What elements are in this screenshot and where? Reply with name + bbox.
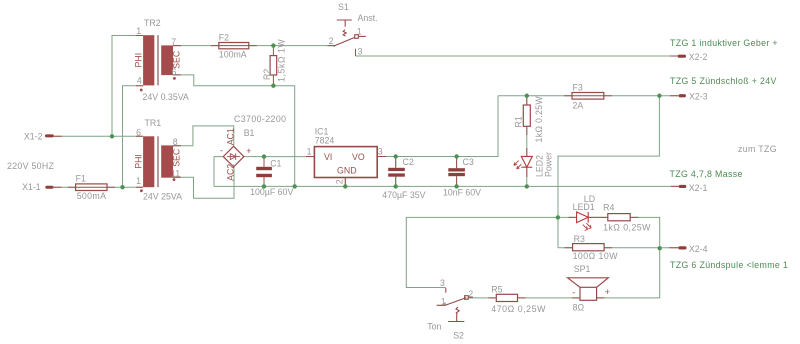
svg-text:1: 1	[136, 176, 141, 186]
svg-text:PHI: PHI	[133, 53, 143, 68]
svg-text:100Ω 10W: 100Ω 10W	[573, 251, 619, 261]
svg-text:6: 6	[136, 128, 141, 138]
svg-text:1: 1	[441, 297, 446, 307]
svg-text:R3: R3	[574, 234, 585, 244]
svg-text:1kΩ 0,25W: 1kΩ 0,25W	[603, 223, 651, 233]
svg-text:F3: F3	[573, 83, 583, 93]
svg-text:PHI: PHI	[133, 154, 143, 169]
svg-text:LED1: LED1	[573, 202, 595, 212]
svg-text:R5: R5	[491, 285, 502, 295]
svg-text:100mA: 100mA	[219, 49, 247, 59]
svg-text:B1: B1	[244, 128, 255, 138]
svg-text:2: 2	[329, 36, 334, 46]
svg-text:10nF 60V: 10nF 60V	[443, 188, 481, 198]
svg-text:SEC: SEC	[171, 50, 181, 69]
svg-text:1: 1	[136, 26, 141, 36]
svg-text:AC1: AC1	[225, 128, 235, 145]
svg-text:+: +	[605, 287, 610, 297]
svg-text:C2: C2	[403, 157, 414, 167]
svg-text:TZG 6 Zündspule <lemme 1: TZG 6 Zündspule <lemme 1	[670, 260, 788, 270]
svg-text:+: +	[246, 146, 251, 156]
svg-text:100µF 60V: 100µF 60V	[250, 187, 293, 197]
svg-text:SEC: SEC	[171, 148, 181, 167]
svg-text:SP1: SP1	[574, 264, 591, 274]
svg-text:3: 3	[358, 47, 363, 57]
svg-text:R1: R1	[513, 116, 523, 127]
svg-text:Power: Power	[543, 152, 553, 177]
svg-text:470Ω 0,25W: 470Ω 0,25W	[491, 304, 546, 314]
svg-text:C3: C3	[463, 157, 474, 167]
svg-text:X2-4: X2-4	[689, 244, 708, 254]
svg-text:2: 2	[335, 179, 345, 184]
svg-text:GND: GND	[337, 165, 357, 175]
svg-text:C3700-2200: C3700-2200	[234, 114, 286, 124]
svg-text:7824: 7824	[315, 135, 335, 145]
svg-text:3: 3	[378, 147, 383, 157]
svg-text:1: 1	[307, 147, 312, 157]
svg-text:Anst.: Anst.	[358, 13, 378, 23]
svg-text:Ton: Ton	[427, 321, 441, 331]
svg-text:TZG 1 induktiver Geber +: TZG 1 induktiver Geber +	[670, 38, 778, 48]
svg-text:R4: R4	[603, 202, 614, 212]
svg-text:11: 11	[171, 168, 180, 178]
svg-text:-: -	[572, 287, 575, 297]
svg-text:TR1: TR1	[145, 118, 162, 128]
svg-text:F2: F2	[219, 33, 229, 43]
svg-text:500mA: 500mA	[77, 191, 107, 201]
svg-text:zum TZG: zum TZG	[738, 144, 777, 154]
svg-text:S1: S1	[338, 2, 349, 12]
svg-text:24V 0.35VA: 24V 0.35VA	[143, 92, 189, 102]
svg-text:8: 8	[173, 137, 178, 147]
svg-text:2: 2	[468, 289, 473, 299]
svg-text:X2-1: X2-1	[689, 183, 708, 193]
svg-text:VO: VO	[352, 152, 365, 162]
svg-text:4: 4	[137, 76, 142, 86]
svg-text:AC2: AC2	[225, 164, 235, 181]
svg-text:TZG 4,7,8 Masse: TZG 4,7,8 Masse	[670, 169, 743, 179]
svg-text:24V 25VA: 24V 25VA	[143, 191, 182, 201]
svg-text:C1: C1	[270, 158, 281, 168]
svg-text:R2: R2	[262, 69, 272, 80]
svg-text:X2-3: X2-3	[689, 92, 708, 102]
svg-text:TR2: TR2	[144, 18, 161, 28]
svg-text:X1-2: X1-2	[24, 132, 43, 142]
svg-text:1kΩ 0.25W: 1kΩ 0.25W	[534, 96, 544, 143]
svg-text:3: 3	[440, 278, 445, 288]
svg-text:7: 7	[171, 37, 176, 47]
svg-text:220V 50HZ: 220V 50HZ	[7, 161, 55, 171]
svg-text:1,5kΩ 1W: 1,5kΩ 1W	[276, 39, 286, 82]
svg-text:X2-2: X2-2	[689, 52, 708, 62]
svg-text:F1: F1	[76, 173, 86, 183]
svg-text:8Ω: 8Ω	[573, 302, 585, 312]
svg-text:X1-1: X1-1	[22, 182, 41, 192]
svg-text:TZG 5 Zündschloß + 24V: TZG 5 Zündschloß + 24V	[670, 76, 777, 86]
svg-text:S2: S2	[453, 331, 464, 341]
svg-text:VI: VI	[324, 152, 332, 162]
svg-text:470µF 35V: 470µF 35V	[382, 190, 425, 200]
svg-text:2A: 2A	[573, 101, 584, 111]
svg-text:-: -	[220, 146, 223, 156]
svg-text:1: 1	[357, 26, 362, 36]
